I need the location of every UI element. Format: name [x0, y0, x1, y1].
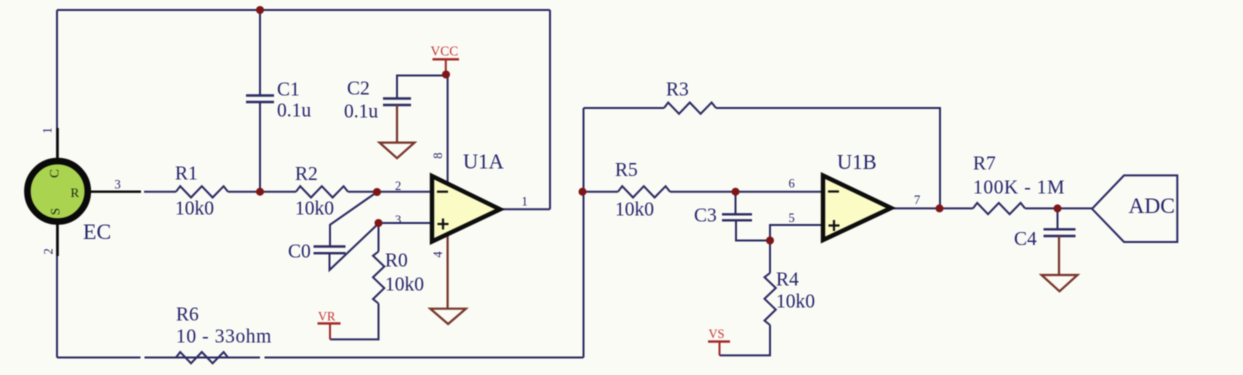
wire node to R5 [584, 191, 619, 193]
wire mic pin3 to R1 [144, 191, 176, 193]
junction node R1/R2/C1 [256, 188, 264, 196]
wire C4 top stub [1057, 208, 1059, 228]
svg-text:R7: R7 [973, 154, 996, 175]
capacitor C3 plates [722, 214, 752, 220]
op-amp U1B [823, 176, 891, 241]
wire R3 right segment down to output node [716, 108, 940, 208]
wire VCC node to C2 [397, 76, 446, 99]
resistor R4 vertical [765, 273, 776, 325]
svg-text:100K - 1M: 100K - 1M [973, 178, 1065, 199]
wire R5 to U1B pin6 [670, 191, 823, 193]
microphone EC pin 3 stub [88, 190, 141, 192]
wire U1A out node vertical R3/R5/bottom [583, 108, 585, 358]
svg-text:10k0: 10k0 [776, 292, 815, 313]
resistor R7 [973, 203, 1025, 214]
op-amp U1A [432, 176, 500, 242]
svg-text:ADC: ADC [1129, 193, 1175, 218]
ADC off-page connector [1092, 175, 1177, 242]
junction node U1A pin3 [375, 219, 383, 227]
svg-text:VS: VS [709, 327, 725, 341]
wire R3 left segment [584, 107, 665, 109]
wire U1A pin3 [379, 222, 433, 224]
wire R4 bottom to VS [720, 325, 771, 355]
op-amp U1B minus input mark [828, 190, 839, 192]
resistor R3 [664, 103, 716, 114]
svg-text:R0: R0 [385, 251, 408, 272]
svg-text:6: 6 [789, 177, 795, 191]
junction node U1B output [936, 204, 944, 212]
svg-text:R3: R3 [666, 80, 689, 101]
wire U1B output pin7 [891, 207, 973, 209]
capacitor C2 plates [383, 99, 411, 106]
svg-text:C3: C3 [694, 206, 717, 227]
wire U1A output pin1 [500, 208, 550, 210]
wire C1 bottom [259, 103, 261, 192]
resistor R1 [176, 186, 228, 197]
resistor R0 vertical [373, 252, 384, 304]
wire R0 top stub [378, 223, 380, 252]
svg-text:10k0: 10k0 [295, 199, 334, 220]
resistor R6 [176, 352, 228, 363]
capacitor C0 plates [314, 247, 346, 254]
VR symbol [318, 310, 341, 340]
wire left vertical to mic pin1 [56, 10, 58, 160]
svg-text:R2: R2 [295, 164, 318, 185]
ground under C4 [1042, 236, 1078, 291]
svg-text:U1B: U1B [837, 150, 877, 174]
svg-text:EC: EC [83, 219, 111, 244]
wire bottom rail [57, 357, 141, 359]
svg-text:7: 7 [914, 193, 920, 207]
VS symbol [708, 327, 730, 355]
op-amp U1A minus input mark [437, 191, 448, 193]
svg-text:C1: C1 [277, 80, 300, 101]
svg-text:2: 2 [41, 248, 55, 254]
VCC symbol [431, 44, 460, 73]
svg-text:R5: R5 [615, 160, 638, 181]
wire left vertical from mic pin2 [56, 223, 58, 358]
wire VCC to U1A pin8 [447, 76, 449, 186]
svg-text:0.1u: 0.1u [344, 102, 378, 123]
microphone EC body [27, 161, 87, 221]
svg-text:2: 2 [395, 179, 401, 193]
svg-text:3: 3 [395, 213, 401, 227]
wire R7 to ADC [1025, 207, 1092, 209]
junction node VCC [442, 71, 450, 79]
svg-text:10k0: 10k0 [175, 199, 214, 220]
svg-text:VCC: VCC [431, 44, 459, 59]
svg-text:C: C [47, 169, 62, 178]
wire R0 bottom to VR [330, 304, 379, 340]
svg-text:U1A: U1A [463, 150, 505, 174]
junction node U1A pin2 [373, 188, 381, 196]
resistor R2 [296, 186, 348, 197]
svg-text:0.1u: 0.1u [277, 101, 311, 122]
ground under U1A pin4 [430, 234, 466, 324]
wire R1 to node [228, 191, 296, 193]
junction node C4/ADC [1054, 204, 1062, 212]
resistor R5 [618, 186, 670, 197]
wire feedback right vertical to U1A output [549, 10, 551, 209]
svg-text:C0: C0 [288, 242, 311, 263]
svg-text:10k0: 10k0 [385, 275, 424, 296]
wire R2 to U1A pin2 [348, 191, 432, 193]
wire C1 top [259, 10, 261, 95]
svg-text:R6: R6 [176, 305, 199, 326]
junction node C3/pin6 [732, 188, 740, 196]
microphone EC pin 1 stub [56, 128, 58, 161]
wire R4 top stub [769, 241, 771, 274]
svg-text:3: 3 [115, 178, 121, 192]
svg-text:R4: R4 [776, 270, 799, 291]
svg-text:VR: VR [318, 310, 336, 324]
capacitor C1 plates [246, 96, 274, 103]
svg-text:R: R [71, 185, 80, 200]
ground under C2 [380, 105, 415, 158]
wire C0 lower diagonal [330, 224, 379, 271]
wire C3 top stub [735, 192, 737, 214]
svg-text:4: 4 [431, 251, 445, 258]
svg-text:5: 5 [789, 211, 795, 225]
svg-text:1: 1 [522, 195, 528, 209]
svg-text:S: S [48, 208, 63, 215]
junction node C3/R4/pin5 [766, 237, 774, 245]
svg-text:8: 8 [431, 152, 445, 158]
junction node top rail / C1 [256, 6, 264, 14]
svg-text:10 - 33ohm: 10 - 33ohm [176, 327, 272, 348]
capacitor C4 plates [1044, 229, 1076, 236]
svg-text:C2: C2 [347, 79, 370, 100]
svg-text:10k0: 10k0 [615, 200, 654, 221]
wire C3 bottom elbow [736, 221, 770, 241]
svg-text:1: 1 [40, 127, 54, 133]
wire U1B pin5 elbow [770, 225, 823, 241]
svg-text:C4: C4 [1014, 229, 1037, 250]
op-amp U1A plus input mark [438, 219, 449, 230]
svg-text:R1: R1 [175, 164, 198, 185]
microphone EC pin 2 stub [56, 222, 58, 256]
op-amp U1B plus input mark [829, 220, 840, 231]
wire C0 upper diagonal [330, 192, 377, 246]
wire top feedback rail [57, 9, 550, 11]
junction node R5/R3/bottom [579, 188, 587, 196]
